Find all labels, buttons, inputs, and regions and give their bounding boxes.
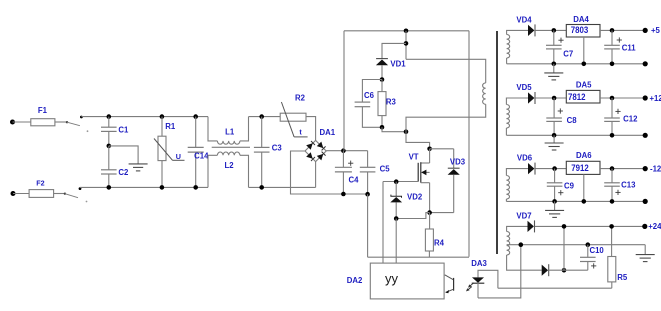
svg-text:VT: VT [409, 153, 419, 162]
wire [54, 193, 65, 195]
svg-text:C7: C7 [563, 50, 573, 59]
node C2 bottom [107, 185, 112, 190]
capacitor C11 [604, 30, 636, 63]
svg-text:DA1: DA1 [319, 128, 335, 137]
svg-text:C2: C2 [118, 168, 129, 177]
node C4 top [341, 148, 346, 153]
capacitor C3 [254, 117, 282, 188]
wire top rail [81, 116, 208, 118]
ground 3 [545, 201, 564, 217]
bridge rectifier DA1 [305, 128, 336, 162]
wire bottom rail [80, 186, 208, 188]
inductor L2 [208, 152, 249, 187]
wire [535, 97, 567, 99]
svg-text:C8: C8 [567, 116, 578, 125]
transformer W1 [507, 30, 528, 63]
wire to ground [109, 146, 138, 164]
capacitor C1 [101, 117, 129, 146]
transformer W3 [506, 169, 528, 202]
node DA6 out [610, 166, 615, 171]
wire [13, 121, 31, 123]
node [552, 199, 557, 204]
node [552, 133, 557, 138]
svg-text:7803: 7803 [571, 25, 589, 35]
transformer primary [483, 83, 486, 104]
LED DA3 [471, 259, 487, 298]
wire gnd rail 2 [506, 134, 645, 136]
switch SA1 contact [80, 116, 83, 119]
terminal 0V b [643, 133, 648, 138]
node DA5 out [610, 96, 615, 101]
capacitor C9 [547, 169, 575, 202]
ground 4 [636, 245, 655, 262]
svg-text:C5: C5 [380, 164, 391, 173]
wire [382, 127, 406, 131]
node C14 top [193, 114, 198, 119]
node R1 top [160, 114, 165, 119]
svg-text:U: U [176, 152, 181, 161]
svg-text:DA4: DA4 [573, 15, 589, 24]
wire [55, 121, 67, 123]
svg-text:R4: R4 [434, 238, 445, 247]
capacitor C14 [188, 117, 209, 188]
transformer W2 [506, 98, 528, 135]
wire HV riser [468, 31, 470, 257]
choke core [212, 146, 250, 148]
wire to drain [406, 132, 430, 149]
node VD8 out [562, 268, 567, 273]
node [582, 62, 587, 67]
node C4 bottom [341, 192, 346, 197]
svg-text:VD2: VD2 [407, 193, 423, 202]
node VT source [427, 210, 432, 215]
regulator DA6 [566, 151, 600, 175]
wire [405, 31, 407, 60]
svg-text:DA6: DA6 [576, 151, 592, 160]
node snubber bottom [380, 125, 385, 130]
node drain link [404, 129, 409, 134]
transformer W4 [507, 226, 542, 270]
varistor R1 [154, 117, 185, 188]
svg-text:R5: R5 [617, 273, 628, 282]
node top rail [404, 29, 409, 34]
wire top rail [344, 30, 469, 32]
node VD2 cathode [394, 179, 399, 184]
wire [249, 116, 281, 118]
node VD1 anode [380, 77, 385, 82]
svg-text:VD5: VD5 [516, 83, 532, 92]
wire [430, 212, 454, 214]
wire [563, 226, 565, 270]
wire bridge bottom [315, 162, 317, 188]
diode VD1 [376, 59, 406, 80]
wire [535, 29, 567, 31]
wire LED bottom [478, 245, 521, 298]
wire DA6 gnd pin [583, 174, 585, 201]
switch SA2 contact [79, 187, 82, 190]
node VD6 out [552, 166, 557, 171]
wire gnd rail 1 [507, 63, 646, 65]
node C3 bottom [259, 185, 264, 190]
wire [249, 186, 316, 188]
wire bridge plus [326, 150, 367, 152]
input terminal 1 [10, 120, 15, 125]
node [562, 224, 567, 229]
wire [600, 168, 645, 170]
terminal +12 [643, 94, 661, 103]
wire DA4 gnd pin [583, 37, 585, 64]
regulator DA4 [566, 15, 600, 37]
svg-text:7812: 7812 [568, 92, 586, 102]
diode VD3 [448, 149, 466, 213]
capacitor C6 [355, 80, 382, 128]
wire [430, 148, 454, 150]
node [609, 224, 614, 229]
svg-text:R3: R3 [386, 97, 397, 106]
diode VD5 [516, 83, 535, 104]
switch SA1 blade [66, 121, 89, 132]
resistor R5 [608, 226, 628, 288]
node C14 bottom [193, 185, 198, 190]
wire [367, 194, 369, 257]
wire [600, 97, 645, 99]
node C1 top [107, 114, 112, 119]
svg-text:L1: L1 [225, 127, 235, 136]
node C5 bottom [365, 192, 370, 197]
LED arrows [466, 283, 474, 292]
node [610, 199, 615, 204]
ground input [129, 164, 148, 171]
inductor L1 [208, 117, 249, 145]
svg-text:DA2: DA2 [347, 276, 363, 285]
capacitor C7 [546, 30, 573, 63]
svg-text:7912: 7912 [571, 163, 589, 173]
wire primary bottom [406, 104, 486, 131]
wire feedback [498, 287, 612, 289]
wire [396, 213, 429, 219]
wire [549, 269, 588, 271]
regulator DA5 [566, 81, 600, 104]
svg-text:DA3: DA3 [471, 259, 487, 268]
resistor R3 [378, 80, 396, 128]
capacitor C5 [360, 151, 390, 195]
wire gnd rail 3 [506, 200, 645, 202]
terminal 0V a [643, 61, 648, 66]
ground 2 [545, 135, 564, 150]
wire [395, 219, 397, 264]
input terminal 2 [11, 191, 16, 196]
wire +24 rail [535, 225, 645, 227]
svg-text:уу: уу [385, 271, 399, 286]
svg-text:C13: C13 [621, 181, 636, 190]
svg-text:C4: C4 [349, 176, 360, 185]
capacitor C4 [335, 151, 359, 194]
ground 1 [544, 64, 563, 80]
node C1-C2 [107, 144, 112, 149]
resistor R4 [425, 213, 444, 258]
terminal +5 [643, 26, 661, 35]
node tap-C10 [586, 242, 591, 247]
phototransistor DA3b [445, 275, 454, 293]
svg-text:C11: C11 [622, 43, 637, 52]
capacitor C10 [580, 245, 604, 271]
transistor VT [409, 149, 430, 213]
svg-text:R1: R1 [165, 122, 176, 131]
wire LED loop top [478, 270, 498, 288]
node tap-LED [519, 242, 524, 247]
terminal +24 [642, 222, 661, 231]
node C3 top [259, 114, 264, 119]
node VD2 anode [394, 216, 399, 221]
node [610, 133, 615, 138]
switch SA2 blade [64, 193, 88, 203]
wire DC+ riser [343, 31, 345, 151]
node [552, 62, 557, 67]
diode VD4 [516, 16, 535, 37]
svg-text:C3: C3 [272, 144, 283, 153]
svg-text:R2: R2 [295, 94, 306, 103]
diode VD7 [516, 211, 534, 232]
transformer core [496, 31, 498, 254]
svg-text:C12: C12 [623, 114, 638, 123]
wire W4 tap [507, 244, 646, 246]
svg-text:VD6: VD6 [517, 153, 533, 162]
svg-text:F2: F2 [36, 179, 44, 188]
fuse F1 [31, 106, 55, 126]
svg-text:C9: C9 [564, 181, 575, 190]
node VT drain [427, 147, 432, 152]
node [582, 199, 587, 204]
svg-text:C1: C1 [118, 126, 129, 135]
svg-text:+12: +12 [650, 94, 661, 103]
svg-text:+24: +24 [648, 222, 661, 231]
zener VD2 [390, 182, 423, 219]
node [610, 62, 615, 67]
wire return bus [368, 256, 469, 258]
thermistor R2 [280, 94, 307, 137]
svg-text:+5: +5 [651, 26, 661, 35]
svg-text:C10: C10 [589, 246, 604, 255]
capacitor C2 [101, 146, 129, 188]
diode VD8 [542, 264, 549, 276]
svg-text:C6: C6 [364, 91, 375, 100]
node R1 bottom [160, 185, 165, 190]
capacitor C13 [604, 169, 636, 202]
node DA4 out [610, 28, 615, 33]
node VD4 out [552, 28, 557, 33]
svg-text:VD3: VD3 [450, 157, 466, 166]
svg-text:C14: C14 [194, 151, 209, 160]
op-amp U1 DA2 control box [347, 263, 444, 299]
terminal -12 [643, 164, 661, 173]
wire [382, 43, 406, 58]
node VD5 out [552, 96, 557, 101]
svg-text:VD4: VD4 [516, 16, 532, 25]
wire bridge minus [291, 151, 368, 194]
node VD1 branch [404, 41, 409, 46]
wire [535, 168, 567, 170]
capacitor C8 [546, 98, 577, 135]
svg-text:-12: -12 [650, 164, 661, 173]
svg-text:VD7: VD7 [516, 211, 531, 220]
capacitor C12 [604, 98, 638, 135]
wire [600, 29, 645, 31]
wire [13, 193, 29, 195]
wire [306, 117, 316, 141]
wire gate down [382, 182, 384, 264]
wire primary top [406, 59, 486, 83]
svg-text:F1: F1 [38, 106, 48, 115]
fuse F2 [29, 179, 53, 198]
wire gate [383, 181, 418, 183]
diode VD6 [517, 153, 535, 174]
svg-text:L2: L2 [224, 161, 234, 170]
terminal 0V c [643, 199, 648, 204]
svg-text:VD1: VD1 [390, 60, 406, 69]
svg-text:DA5: DA5 [576, 81, 592, 90]
